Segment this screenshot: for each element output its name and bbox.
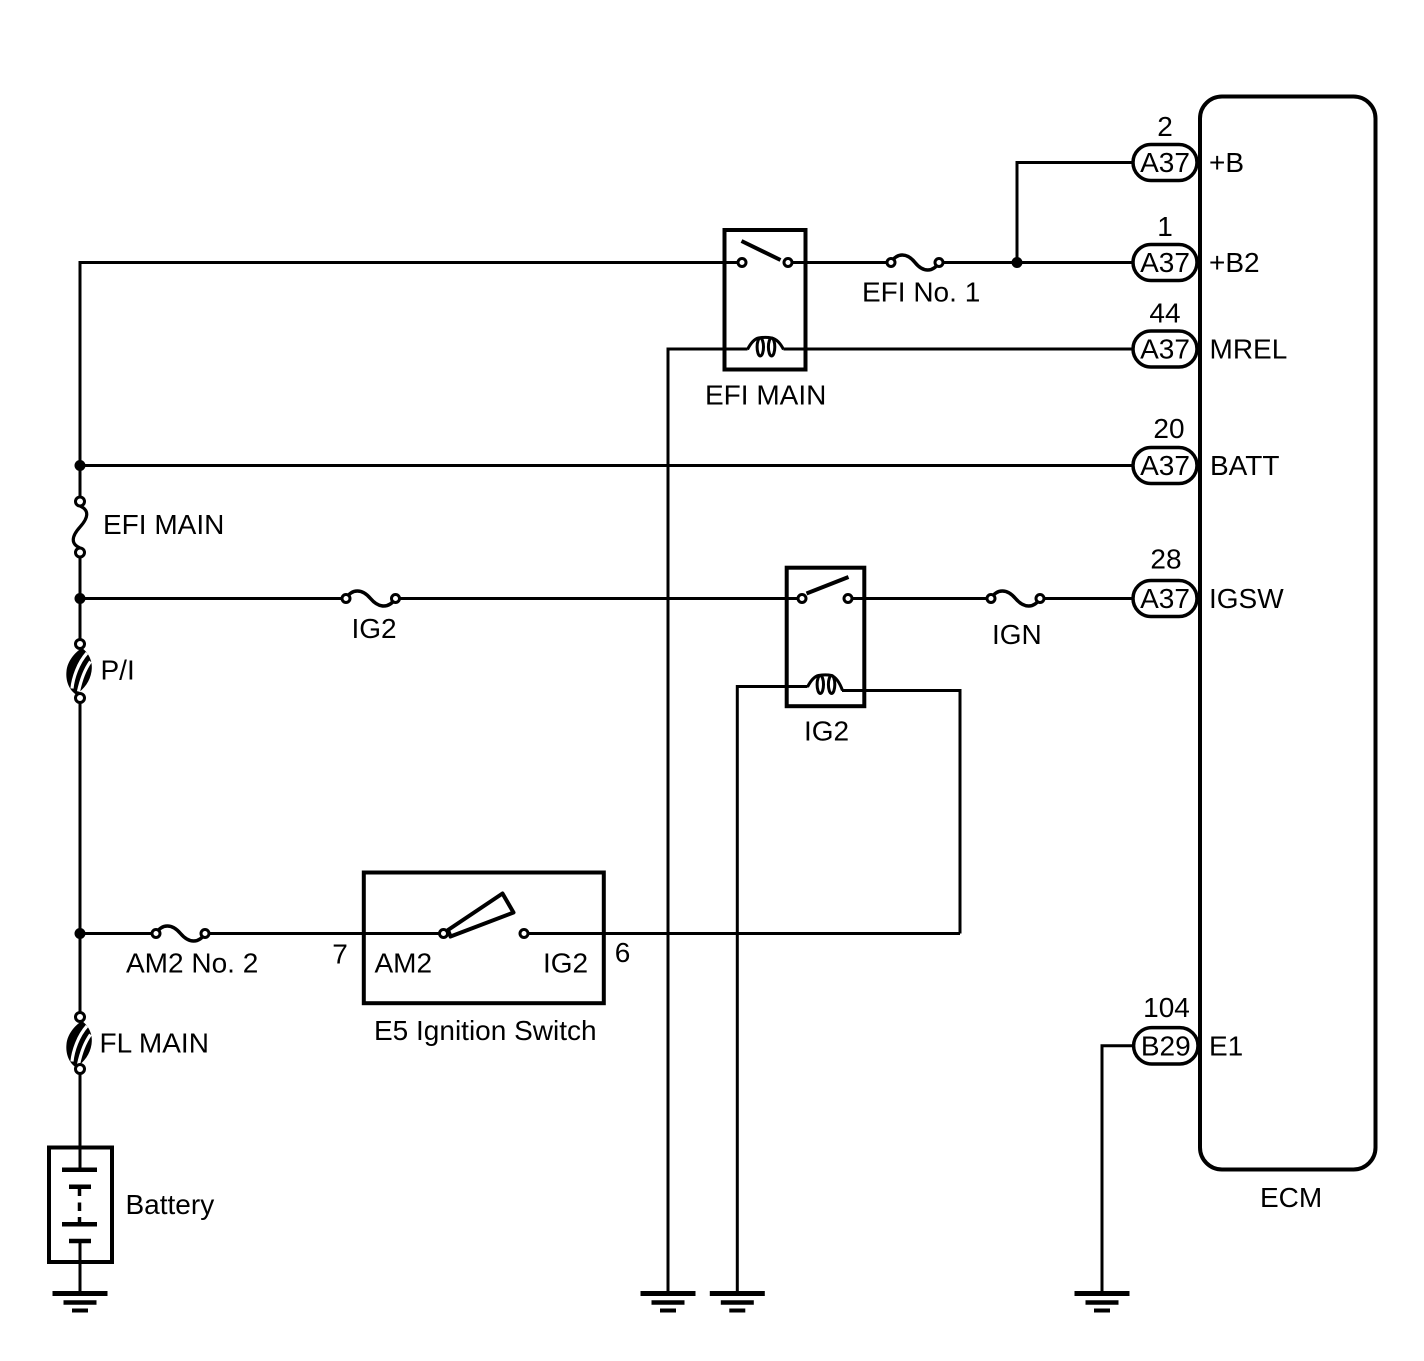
svg-text:Battery: Battery [126,1189,215,1220]
junction node AM2 tap [75,928,86,939]
terminal fuse AM2 No.2 right [201,930,209,938]
wire fuse IGN to pin IGSW [1040,597,1133,600]
connector oval A37 pin 1 [1133,245,1197,281]
wire EFI MAIN relay output to fuse EFI No.1 [788,261,891,264]
terminal fuse EFI MAIN top [76,497,85,506]
wire EFI MAIN relay coil to pin MREL [784,348,1134,351]
terminal fuse EFI No.1 right [935,259,943,267]
fusible link FL MAIN leaf [66,1021,92,1068]
svg-text:2: 2 [1157,111,1173,142]
fuse EFI No.1 element [891,255,939,270]
wire left bus between fuse EFI MAIN and link P/I [79,553,82,645]
fuse IGN element [991,591,1040,606]
switch E5 ignition switch box [364,873,604,1004]
terminal fuse IG2 right [392,595,400,603]
battery dashed cell link [78,1187,82,1196]
contact switch IG2 [520,930,528,938]
svg-text:B29: B29 [1141,1031,1191,1062]
ECM box [1200,97,1376,1170]
wire battery negative to ground [79,1241,82,1292]
svg-text:E5 Ignition Switch: E5 Ignition Switch [374,1015,597,1046]
ground E1 [1075,1294,1130,1311]
svg-text:AM2 No. 2: AM2 No. 2 [126,948,258,979]
wire fuse EFI No.1 to pin +B2 [939,261,1133,264]
terminal link P/I bottom [76,694,85,703]
svg-text:MREL: MREL [1210,334,1288,365]
svg-text:+B2: +B2 [1209,247,1260,278]
terminal fuse EFI No.1 left [887,259,895,267]
contact relay IG2 right [844,595,852,603]
battery plate long 1 [62,1168,97,1173]
relay EFI MAIN box [725,230,806,370]
relay EFI MAIN switch blade [742,241,781,260]
battery plate short 1 [69,1185,91,1190]
junction node +B/+B2 [1012,257,1023,268]
svg-text:EFI MAIN: EFI MAIN [705,380,826,411]
ground IG2 relay coil [710,1294,765,1311]
terminal fuse AM2 No.2 left [152,930,160,938]
svg-text:E1: E1 [1209,1031,1243,1062]
svg-text:IG2: IG2 [804,716,849,747]
svg-text:ECM: ECM [1260,1182,1322,1213]
svg-text:IG2: IG2 [352,613,397,644]
contact switch AM2 [440,930,448,938]
svg-text:IG2: IG2 [543,948,588,979]
svg-text:AM2: AM2 [375,948,433,979]
svg-text:IGN: IGN [992,619,1042,650]
relay EFI MAIN coil [748,337,784,349]
svg-text:+B: +B [1209,147,1244,178]
wire battery positive bus to EFI MAIN relay contact [79,261,743,264]
relay IG2 box [787,568,865,707]
svg-text:A37: A37 [1140,450,1190,481]
wire BATT line [80,464,1133,467]
wire left bus upper segment [79,261,82,502]
svg-text:44: 44 [1149,298,1180,329]
terminal fuse IGN right [1036,595,1044,603]
wire ignition switch pin 6 output [524,932,960,935]
wire left bus link FL MAIN to battery [79,1069,82,1170]
svg-text:104: 104 [1143,992,1190,1023]
wire fuse IG2 to IG2 relay contact [396,597,802,600]
wire fuse AM2 No.2 to ignition switch pin 7 [205,932,444,935]
terminal fuse IGN left [987,595,995,603]
wire IG2 relay coil left to ground riser [737,687,807,1292]
connector oval A37 pin 44 [1133,331,1197,367]
wire IG2 relay coil right down to ignition switch IG2 pin 6 [842,691,960,934]
battery case [49,1148,112,1263]
wire AM2 node to fuse AM2 No.2 [80,932,156,935]
wire node to pin +B [1017,163,1133,263]
svg-text:6: 6 [615,937,631,968]
svg-text:1: 1 [1157,211,1173,242]
contact relay EFI MAIN left [738,259,746,267]
svg-text:A37: A37 [1140,147,1190,178]
connector oval A37 pin 2 [1133,145,1197,181]
switch E5 key lever [448,894,514,937]
ground EFI MAIN relay coil [641,1294,696,1311]
wire left bus between link P/I and link FL MAIN [79,698,82,1017]
svg-text:28: 28 [1150,544,1181,575]
wire pin E1 to ground [1102,1046,1133,1292]
fuse EFI MAIN element (vertical) [73,506,87,548]
svg-text:BATT: BATT [1210,450,1279,481]
wire IG2 relay output to fuse IGN [848,597,991,600]
svg-text:FL MAIN: FL MAIN [100,1028,209,1059]
svg-text:7: 7 [332,939,348,970]
contact relay EFI MAIN right [784,259,792,267]
wire ground riser to EFI MAIN relay coil [667,348,748,351]
terminal fuse IG2 left [342,595,350,603]
terminal fuse EFI MAIN bottom [76,548,85,557]
contact relay IG2 left [798,595,806,603]
junction node IGSW tap [75,593,86,604]
svg-text:A37: A37 [1140,247,1190,278]
connector oval B29 pin 104 [1134,1028,1198,1064]
terminal link P/I top [76,640,85,649]
terminal link FL MAIN bottom [76,1065,85,1074]
battery plate short 2 [69,1239,91,1244]
connector oval A37 pin 28 [1133,581,1197,617]
svg-text:EFI MAIN: EFI MAIN [103,509,224,540]
junction node BATT tap [75,460,86,471]
svg-text:A37: A37 [1140,583,1190,614]
svg-text:20: 20 [1153,413,1184,444]
svg-text:EFI No. 1: EFI No. 1 [862,277,980,308]
fusible link P/I leaf [66,648,92,695]
connector oval A37 pin 20 [1133,448,1197,484]
ground battery [53,1294,108,1311]
fuse IG2 element [346,591,396,606]
svg-text:IGSW: IGSW [1209,583,1284,614]
svg-text:P/I: P/I [101,655,135,686]
relay IG2 switch blade [807,577,849,594]
terminal link FL MAIN top [76,1013,85,1022]
battery internal lead [79,1148,82,1170]
wire EFI MAIN relay coil ground riser [667,348,670,1292]
battery plate long 2 [62,1222,97,1227]
fuse AM2 No.2 element [156,926,205,941]
svg-text:A37: A37 [1140,334,1190,365]
relay IG2 coil [808,675,843,691]
wire IGSW line to fuse IG2 [80,597,346,600]
